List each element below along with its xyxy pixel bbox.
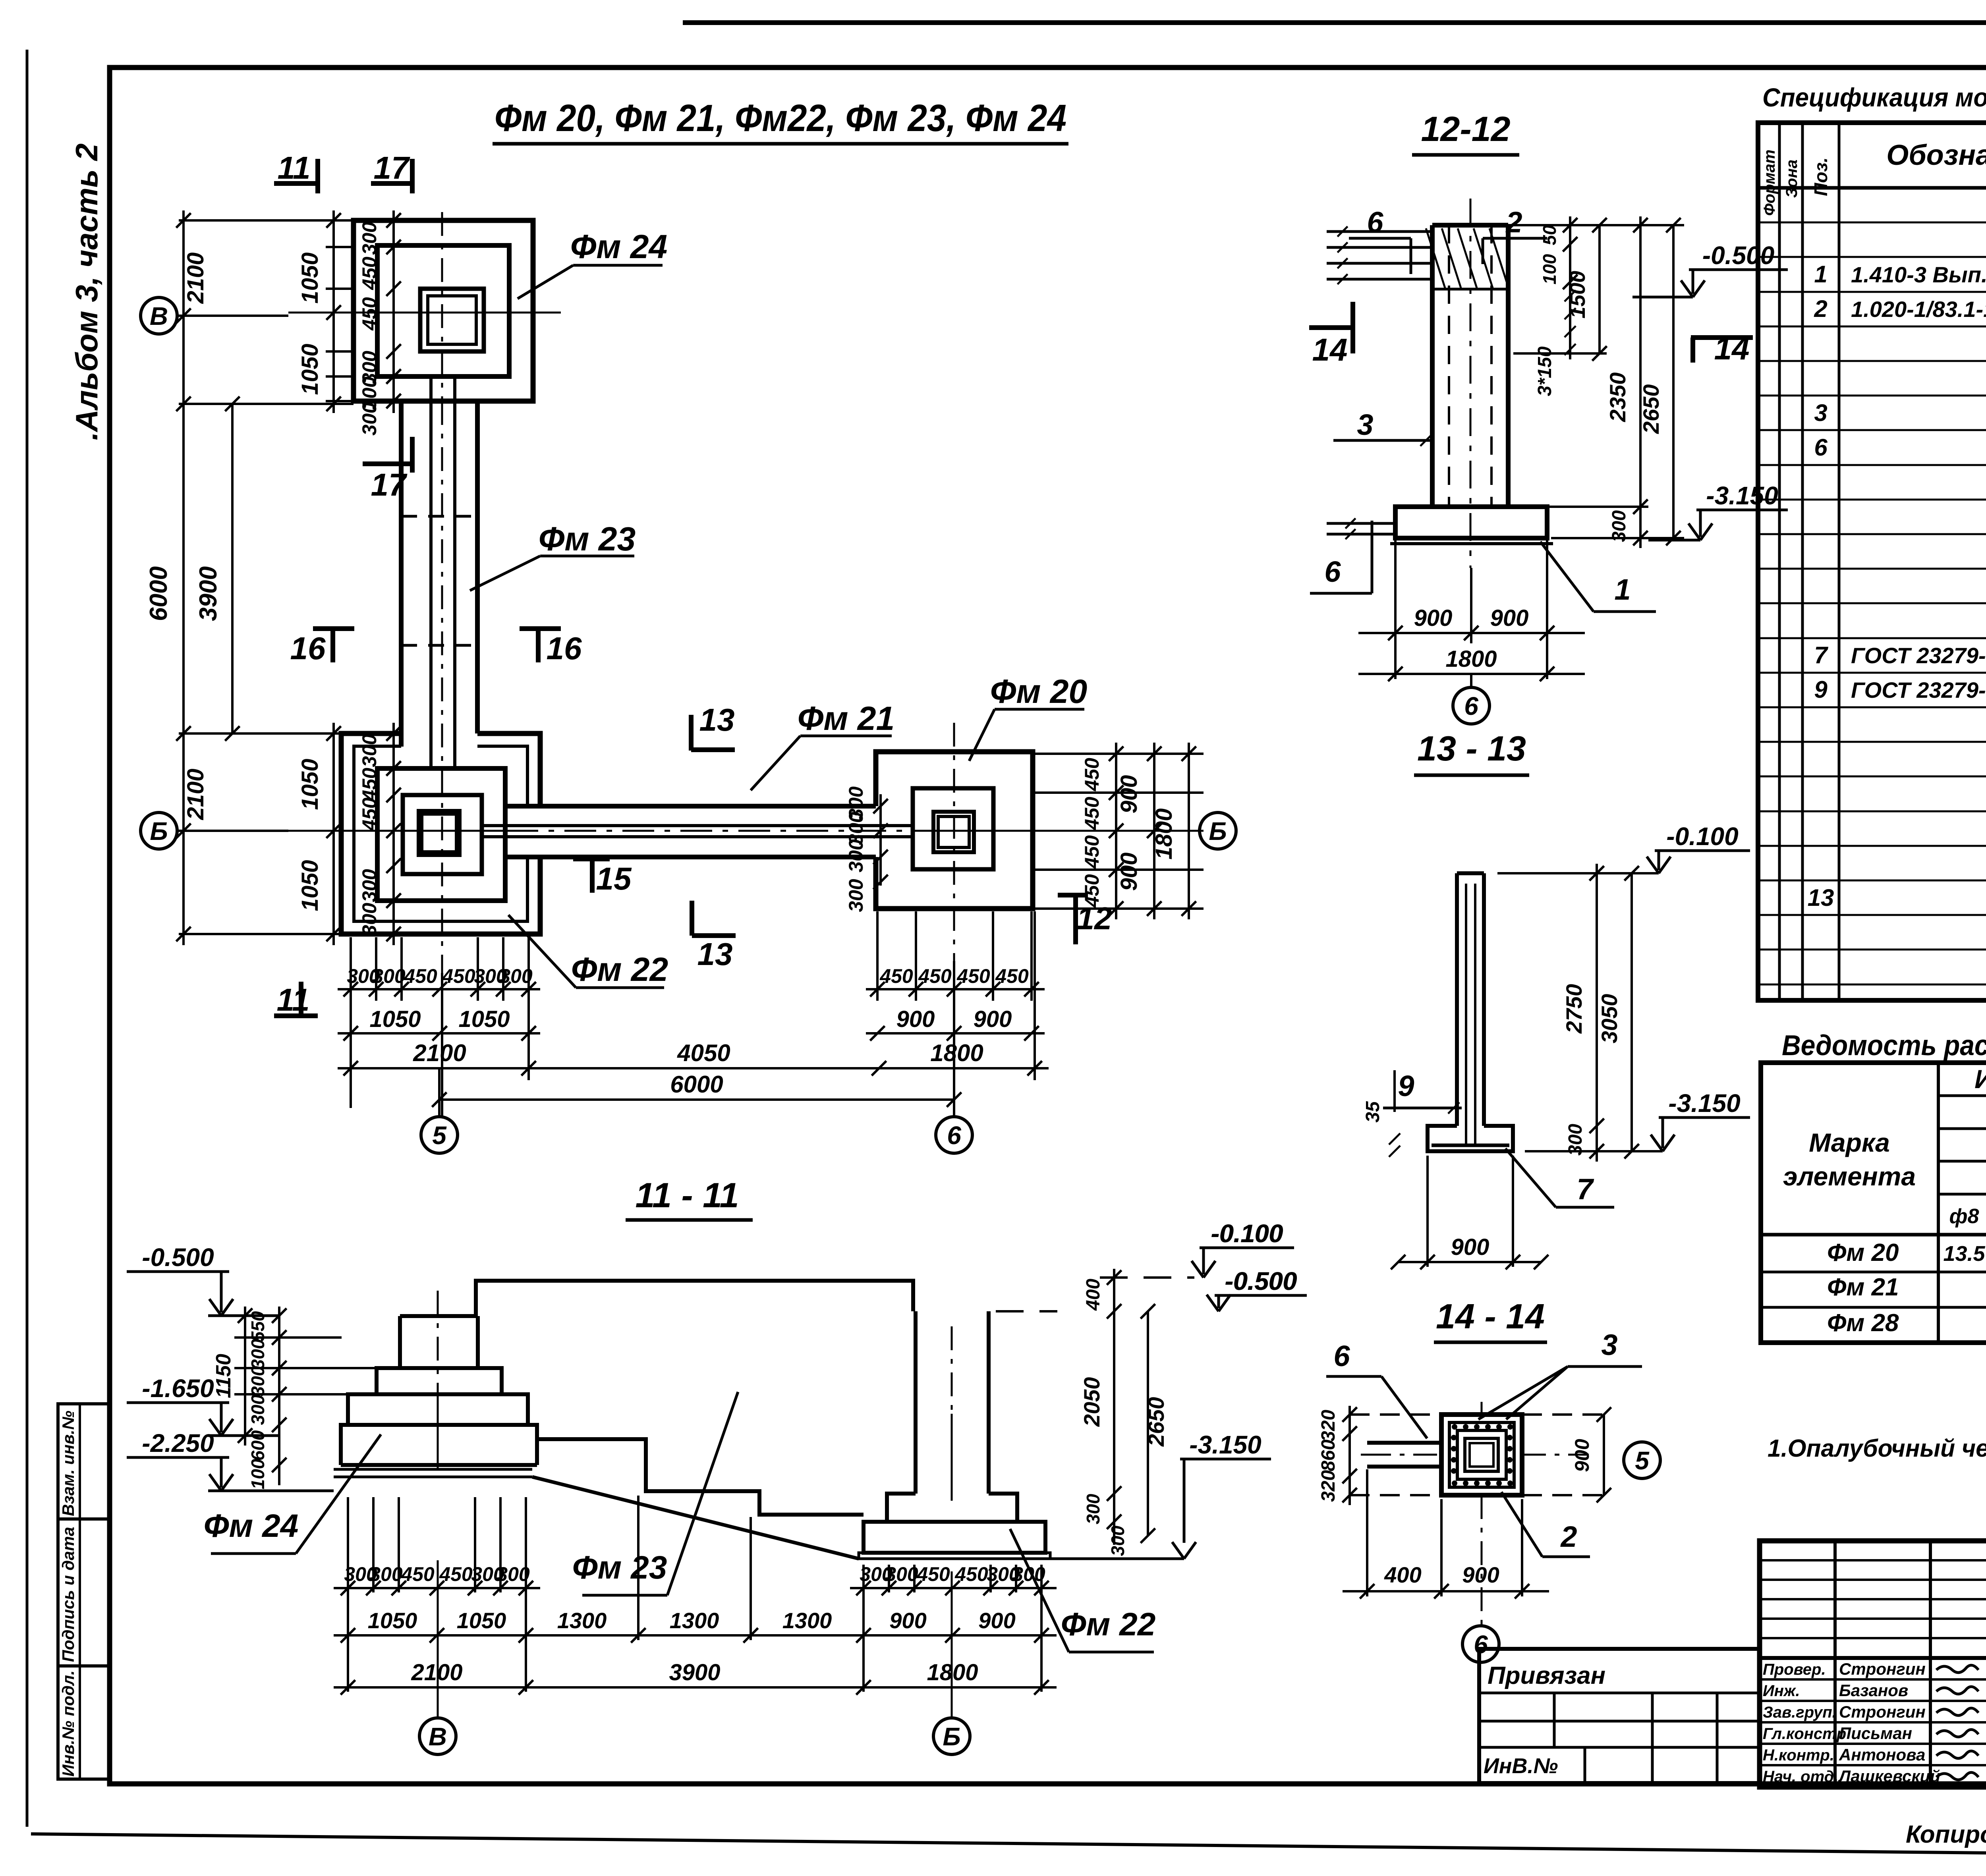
plan bottom chain 450x4 Фм20 xyxy=(866,988,1045,990)
axis circle В section 11-11 xyxy=(419,1718,456,1754)
svg-text:900: 900 xyxy=(896,1006,935,1032)
svg-text:Взам. инв.№: Взам. инв.№ xyxy=(59,1411,77,1516)
axis circle Б section 11-11 xyxy=(933,1718,970,1754)
svg-text:5: 5 xyxy=(1635,1446,1650,1475)
svg-text:Б: Б xyxy=(1209,817,1227,845)
svg-text:Зав.груп.: Зав.груп. xyxy=(1763,1704,1837,1721)
footing Фм20 outer square xyxy=(876,752,1033,909)
svg-text:2100: 2100 xyxy=(183,252,209,304)
plan left chain 1050 1050 (Фм24) xyxy=(332,210,335,413)
section 12-12 column outline xyxy=(1430,225,1435,507)
section 12-12 chain 1500 xyxy=(1598,225,1601,353)
section 14-14 rebar dots xyxy=(1452,1424,1457,1430)
svg-text:1050: 1050 xyxy=(458,1006,510,1032)
small table Привязан xyxy=(1479,1649,1760,1783)
section 12-12 anchor bars (6) xyxy=(1327,230,1432,233)
section 11-11 dim row 1050 1050 1300 1300 1300 900 900 xyxy=(334,1634,1057,1637)
footing Фм22 axis cross xyxy=(288,830,506,832)
svg-text:1300: 1300 xyxy=(782,1608,832,1633)
section 12-12 right extension lines xyxy=(1508,224,1684,226)
svg-text:элемента: элемента xyxy=(1783,1162,1916,1191)
svg-text:ф8: ф8 xyxy=(1949,1205,1979,1228)
svg-text:11: 11 xyxy=(276,982,309,1017)
section 12-12 chain 50 100 xyxy=(1569,216,1571,359)
svg-text:-0.500: -0.500 xyxy=(142,1243,214,1272)
svg-text:15: 15 xyxy=(596,861,632,896)
svg-text:2: 2 xyxy=(1560,1520,1577,1553)
svg-text:4050: 4050 xyxy=(677,1040,730,1066)
svg-text:300: 300 xyxy=(845,839,867,872)
spec table grid xyxy=(1758,123,1986,1000)
svg-text:Инв.№ подл.: Инв.№ подл. xyxy=(59,1670,77,1776)
section 14-14 axis cross xyxy=(1361,1454,1367,1456)
section 11-11 left chains xyxy=(278,1307,280,1485)
title block signature rows xyxy=(1760,1678,1986,1681)
svg-text:13: 13 xyxy=(697,936,733,972)
svg-text:1050: 1050 xyxy=(297,252,323,303)
axis circle В left xyxy=(141,297,177,334)
svg-text:Фм 23: Фм 23 xyxy=(572,1550,667,1586)
svg-text:300: 300 xyxy=(369,1563,403,1585)
beam Фм21 inner lines xyxy=(482,824,913,827)
section 14-14 glass outer square xyxy=(1441,1415,1522,1495)
section mark 13 lower xyxy=(690,901,694,936)
svg-text:Зона: Зона xyxy=(1783,160,1801,198)
svg-text:300: 300 xyxy=(358,222,381,255)
svg-text:3: 3 xyxy=(1814,400,1827,426)
svg-text:3900: 3900 xyxy=(195,566,222,621)
plan left main chain 2100 6000 2100 xyxy=(182,210,185,945)
svg-text:300: 300 xyxy=(358,402,381,436)
svg-text:2: 2 xyxy=(1505,206,1522,239)
svg-text:1800: 1800 xyxy=(1151,808,1177,859)
svg-text:900: 900 xyxy=(974,1006,1012,1032)
svg-text:В: В xyxy=(429,1722,447,1751)
title block outer xyxy=(1760,1541,1986,1787)
svg-text:6: 6 xyxy=(1814,434,1828,461)
plan left small chain 300 450 450 300 300 xyxy=(392,210,395,413)
footing Фм22 glass outer xyxy=(419,811,460,855)
svg-text:450: 450 xyxy=(358,768,381,801)
section 11-11 extension lines left elevations xyxy=(234,1336,342,1339)
svg-text:1150: 1150 xyxy=(212,1354,235,1398)
footing Фм20 axis cross xyxy=(914,830,1204,832)
svg-text:Базанов: Базанов xyxy=(1839,1681,1908,1700)
svg-text:Привязан: Привязан xyxy=(1488,1662,1605,1689)
svg-text:300: 300 xyxy=(358,734,381,767)
svg-text:2350: 2350 xyxy=(1605,372,1630,423)
section 14-14 extension dashed lines xyxy=(1350,1413,1441,1416)
svg-text:300: 300 xyxy=(247,1394,268,1425)
footing Фм20 glass outer xyxy=(933,812,974,852)
svg-text:450: 450 xyxy=(442,965,475,987)
section mark 16 left xyxy=(313,626,354,631)
svg-text:450: 450 xyxy=(358,797,381,831)
svg-text:450: 450 xyxy=(439,1563,473,1585)
svg-text:Фм 22: Фм 22 xyxy=(571,951,668,988)
svg-text:300: 300 xyxy=(372,965,406,987)
svg-text:300: 300 xyxy=(1609,510,1630,542)
svg-text:Стронгин: Стронгин xyxy=(1839,1660,1926,1678)
section 12-12 chain 2650 xyxy=(1672,225,1675,538)
svg-text:Фм 23: Фм 23 xyxy=(539,520,636,558)
svg-text:900: 900 xyxy=(1451,1234,1489,1260)
svg-text:13: 13 xyxy=(699,702,735,737)
svg-text:-3.150: -3.150 xyxy=(1668,1089,1740,1117)
section 11-11 wall top outline xyxy=(476,1281,913,1316)
axis circle 6 section 14-14 xyxy=(1462,1626,1499,1662)
svg-text:2650: 2650 xyxy=(1638,384,1663,434)
svg-text:300: 300 xyxy=(247,1366,268,1396)
svg-text:100: 100 xyxy=(1539,254,1560,284)
svg-text:В: В xyxy=(150,302,168,330)
section 11-11 bedding layer Фм24 xyxy=(334,1468,532,1471)
svg-text:11 - 11: 11 - 11 xyxy=(636,1175,739,1215)
section mark 14 right xyxy=(1691,335,1753,340)
strip Фм23 axis line xyxy=(441,401,443,770)
svg-text:2100: 2100 xyxy=(183,768,209,820)
plan right chain 900 900 xyxy=(1153,743,1155,919)
svg-text:Лашкевский: Лашкевский xyxy=(1838,1767,1940,1785)
svg-text:1500: 1500 xyxy=(1566,271,1590,318)
svg-text:Изделия арматурные: Изделия арматурные xyxy=(1974,1064,1986,1094)
svg-text:600: 600 xyxy=(247,1430,268,1461)
axis circle 6 plan xyxy=(953,1068,955,1117)
svg-text:ГОСТ 23279-85: ГОСТ 23279-85 xyxy=(1851,643,1986,668)
section 14-14 left chain 320 860 320 xyxy=(1348,1406,1351,1505)
svg-text:Фм 24: Фм 24 xyxy=(570,228,668,265)
svg-text:300: 300 xyxy=(885,1563,918,1585)
section 14-14 ring 3 xyxy=(1457,1430,1506,1479)
footing Фм22 glass step square xyxy=(403,795,482,874)
svg-text:17: 17 xyxy=(374,150,410,185)
section 12-12 slab xyxy=(1395,507,1547,538)
svg-text:450: 450 xyxy=(358,297,381,331)
left stamp box Подпись и дата xyxy=(58,1519,109,1666)
section 11-11 dim row 2100 3900 1800 xyxy=(334,1686,1057,1689)
section 11-11 sloped underside line xyxy=(532,1477,859,1559)
svg-text:Н.контр.: Н.контр. xyxy=(1763,1747,1834,1764)
section 12-12 column hatch xyxy=(1426,228,1445,288)
section 11-11 right chains xyxy=(1100,1276,1194,1279)
section 14-14 ring 2 xyxy=(1449,1422,1514,1487)
svg-text:КопироВал: БоброВа: КопироВал: БоброВа xyxy=(1906,1821,1986,1848)
section 13-13 chain 3050 xyxy=(1631,873,1633,1151)
section 12-12 chain 2350 300 xyxy=(1639,216,1642,548)
svg-text:1: 1 xyxy=(1814,261,1827,288)
svg-text:13.5: 13.5 xyxy=(1943,1242,1985,1266)
svg-text:1800: 1800 xyxy=(927,1660,978,1685)
footing Фм22 outer outline with notches xyxy=(341,733,540,934)
svg-text:-2.250: -2.250 xyxy=(142,1429,214,1457)
svg-text:Фм 28: Фм 28 xyxy=(1827,1309,1899,1337)
svg-text:13 - 13: 13 - 13 xyxy=(1417,729,1526,768)
section 12-12 column rebar dashed xyxy=(1448,225,1450,504)
svg-text:450: 450 xyxy=(956,965,990,987)
section 14-14 inner squares xyxy=(1465,1438,1498,1471)
svg-text:6: 6 xyxy=(1333,1339,1350,1372)
plan bottom extension lines Фм20 xyxy=(876,911,879,1001)
footing Фм24 outer square xyxy=(354,220,533,401)
svg-text:ГОСТ 23279-85: ГОСТ 23279-85 xyxy=(1851,677,1986,703)
plan bottom chain 1050 1050 xyxy=(338,1032,540,1035)
svg-text:100: 100 xyxy=(247,1459,268,1489)
beam Фм21 outer lines xyxy=(505,804,876,809)
svg-text:400: 400 xyxy=(1384,1562,1421,1587)
svg-text:Фм 20: Фм 20 xyxy=(990,673,1088,710)
svg-text:300: 300 xyxy=(1012,1563,1045,1585)
footing Фм22 middle square xyxy=(377,768,505,901)
svg-text:ИнВ.№: ИнВ.№ xyxy=(1484,1754,1558,1778)
section 13-13 dim 35 xyxy=(1393,1070,1396,1112)
svg-text:6000: 6000 xyxy=(670,1071,723,1098)
section 14-14 bottom dims 400 900 xyxy=(1366,1469,1368,1596)
svg-text:-0.100: -0.100 xyxy=(1211,1219,1283,1248)
svg-text:300: 300 xyxy=(496,1563,530,1585)
svg-text:-0.500: -0.500 xyxy=(1225,1267,1297,1295)
footing Фм24 axis cross xyxy=(288,312,561,314)
svg-text:Ведомость расхода стали на оди: Ведомость расхода стали на один элемент.… xyxy=(1782,1030,1986,1062)
title block middle divider xyxy=(1760,1656,1986,1660)
section 11-11 steps Фм24 xyxy=(400,1314,478,1318)
section 12-12 chain 3x150 xyxy=(1565,290,1576,301)
svg-text:1.020-1/83.1-10.30-01: 1.020-1/83.1-10.30-01 xyxy=(1851,297,1986,322)
svg-text:300: 300 xyxy=(1083,1494,1103,1524)
section 11-11 dim row 300 300 450 450 300 300 right xyxy=(850,1587,1057,1589)
svg-text:900: 900 xyxy=(1462,1562,1499,1587)
section mark 13 upper xyxy=(689,715,694,751)
svg-text:300: 300 xyxy=(845,879,867,912)
svg-text:6000: 6000 xyxy=(145,566,172,621)
svg-text:Провер.: Провер. xyxy=(1763,1661,1826,1678)
axis circle 5 xyxy=(438,1068,440,1117)
svg-text:Б: Б xyxy=(943,1722,960,1751)
section mark 12 plan xyxy=(1058,893,1088,897)
svg-text:1300: 1300 xyxy=(670,1608,719,1633)
svg-text:2100: 2100 xyxy=(413,1040,466,1066)
svg-text:450: 450 xyxy=(1081,835,1103,869)
svg-text:450: 450 xyxy=(954,1563,988,1585)
section 13-13 wall outline xyxy=(1455,873,1459,1126)
svg-text:2050: 2050 xyxy=(1079,1377,1104,1427)
svg-text:6: 6 xyxy=(947,1121,961,1150)
svg-text:300: 300 xyxy=(1107,1525,1128,1556)
footing Фм24 glass outer xyxy=(420,289,484,351)
svg-text:900: 900 xyxy=(889,1608,926,1633)
svg-text:Нач. отд.: Нач. отд. xyxy=(1763,1768,1838,1785)
svg-text:Б: Б xyxy=(150,817,168,845)
title block signatures squiggles xyxy=(1936,1665,1978,1673)
svg-text:Обозначение: Обозначение xyxy=(1886,139,1986,171)
plan right chain 450x4 xyxy=(1115,743,1117,919)
svg-text:13: 13 xyxy=(1808,884,1834,911)
section 11-11 axis Б dash line xyxy=(951,1326,953,1414)
svg-text:1: 1 xyxy=(1614,573,1631,606)
steel table grid xyxy=(1761,1063,1986,1343)
section 13-13 chain 2750 300 xyxy=(1596,864,1598,1162)
section 13-13 footing xyxy=(1428,1126,1513,1151)
svg-text:Стронгин: Стронгин xyxy=(1839,1702,1926,1721)
svg-text:Спецификация монолитных фундам: Спецификация монолитных фундаментов Фм 2… xyxy=(1762,83,1986,112)
svg-text:300: 300 xyxy=(247,1339,268,1369)
svg-text:400: 400 xyxy=(1083,1279,1104,1311)
svg-text:900: 900 xyxy=(1116,775,1142,814)
svg-text:9: 9 xyxy=(1814,676,1828,703)
svg-text:.Альбом 3, часть 2: .Альбом 3, часть 2 xyxy=(69,143,104,440)
svg-text:14: 14 xyxy=(1714,331,1750,366)
svg-text:Антонова: Антонова xyxy=(1839,1745,1925,1764)
beam Фм21 300 300 300 dims xyxy=(879,794,882,886)
svg-text:Фм 21: Фм 21 xyxy=(798,700,895,737)
svg-text:1050: 1050 xyxy=(369,1006,421,1032)
svg-text:900: 900 xyxy=(1571,1439,1593,1472)
svg-text:450: 450 xyxy=(916,1563,950,1585)
section mark 16 right xyxy=(520,626,561,631)
plan bottom chain 2100 4050 1800 xyxy=(338,1067,1049,1069)
section 11-11 axis В dash line xyxy=(437,1291,439,1386)
svg-text:7: 7 xyxy=(1576,1173,1594,1206)
svg-text:1.Опалубочный чертеж Фм 2: 1.Опалубочный чертеж Фм 28 см. лист 21. xyxy=(1768,1435,1986,1462)
section mark 17 lower xyxy=(363,461,412,466)
svg-text:-1.650: -1.650 xyxy=(142,1374,214,1403)
svg-text:450: 450 xyxy=(1081,758,1103,791)
svg-text:450: 450 xyxy=(401,1563,435,1585)
svg-text:9: 9 xyxy=(1398,1069,1414,1102)
section 14-14 beam stub xyxy=(1367,1441,1441,1445)
section 11-11 right footing xyxy=(864,1522,1045,1553)
sheet top trim edge xyxy=(683,20,1986,25)
section 12-12 column axis xyxy=(1470,199,1472,568)
svg-text:1050: 1050 xyxy=(457,1608,506,1633)
axis circle Б left xyxy=(141,813,177,849)
section 12-12 bottom mesh line xyxy=(1390,542,1553,545)
svg-text:Фм 20: Фм 20 xyxy=(1827,1239,1899,1266)
svg-text:11: 11 xyxy=(277,150,310,185)
svg-text:Фм 20, Фм 21, Фм22, Фм 23, Фм: Фм 20, Фм 21, Фм22, Фм 23, Фм 24 xyxy=(495,97,1066,139)
svg-text:2650: 2650 xyxy=(1144,1397,1169,1447)
plan bottom chain 300 300 450 450 300 300 xyxy=(338,988,540,990)
sheet bottom trim edge xyxy=(31,1834,1986,1859)
section 11-11 right pedestal xyxy=(887,1494,916,1522)
plan left chain 1050 1050 (Фм22) xyxy=(332,723,335,945)
plan bottom chain 900 900 Фм20 xyxy=(866,1032,1045,1035)
svg-text:1800: 1800 xyxy=(1445,646,1497,672)
strip Фм23 wall lines xyxy=(399,401,404,747)
axis circle 5 section 14-14 xyxy=(1624,1442,1660,1478)
section 11-11 footing bottom slab line xyxy=(341,1463,537,1467)
beam Фм21 axis line xyxy=(506,830,914,832)
plan chain 3900 xyxy=(231,404,234,733)
svg-text:5: 5 xyxy=(432,1121,447,1150)
svg-text:14: 14 xyxy=(1312,332,1348,367)
svg-text:450: 450 xyxy=(995,965,1029,987)
svg-text:450: 450 xyxy=(918,965,952,987)
svg-text:300: 300 xyxy=(358,869,381,902)
strip Фм23 hidden step edges xyxy=(401,515,477,518)
section 13-13 footing mesh 7 xyxy=(1432,1144,1509,1147)
section 11-11 right bedding layer xyxy=(859,1553,1050,1559)
svg-text:Формат: Формат xyxy=(1761,150,1778,216)
svg-text:320: 320 xyxy=(1318,1410,1339,1442)
svg-text:1050: 1050 xyxy=(297,344,323,395)
svg-text:17: 17 xyxy=(371,467,408,502)
svg-text:6: 6 xyxy=(1464,692,1478,720)
svg-text:3900: 3900 xyxy=(669,1660,720,1685)
sheet left trim edge xyxy=(26,50,29,1827)
plan bottom chain 6000 xyxy=(439,1098,954,1101)
svg-text:-0.500: -0.500 xyxy=(1702,241,1774,270)
svg-text:Гл.констр: Гл.констр xyxy=(1763,1725,1846,1743)
svg-text:1.410-3 Вып. 1: 1.410-3 Вып. 1 xyxy=(1851,262,1986,287)
svg-text:1050: 1050 xyxy=(368,1608,417,1633)
section mark 15 xyxy=(573,857,610,861)
svg-text:-3.150: -3.150 xyxy=(1189,1430,1261,1459)
svg-text:3: 3 xyxy=(1601,1328,1617,1361)
svg-text:6: 6 xyxy=(1324,555,1341,588)
section 14-14 right dim 900 xyxy=(1603,1415,1605,1495)
svg-text:35: 35 xyxy=(1362,1101,1383,1123)
svg-text:2750: 2750 xyxy=(1561,984,1586,1034)
svg-text:Фм 22: Фм 22 xyxy=(1061,1606,1156,1642)
left stamp box Взам. инв.№ xyxy=(58,1404,109,1519)
section 11-11 chain 2650 right xyxy=(1147,1311,1149,1536)
axis circle Б right xyxy=(1200,813,1236,849)
axis circle 6 section 12-12 xyxy=(1470,674,1472,687)
svg-text:450: 450 xyxy=(358,257,381,290)
section 13-13 bottom dim 900 xyxy=(1426,1156,1429,1267)
svg-text:3050: 3050 xyxy=(1597,994,1622,1044)
svg-text:300: 300 xyxy=(358,903,381,936)
svg-text:50: 50 xyxy=(1539,225,1560,245)
svg-text:1300: 1300 xyxy=(557,1608,607,1633)
svg-text:450: 450 xyxy=(1081,797,1103,830)
title block upper left grid xyxy=(1760,1559,1986,1561)
svg-text:900: 900 xyxy=(1490,605,1529,631)
svg-text:450: 450 xyxy=(879,965,913,987)
footing Фм24 middle square xyxy=(377,245,509,376)
svg-text:900: 900 xyxy=(1414,605,1453,631)
svg-text:860: 860 xyxy=(1318,1440,1339,1471)
footing Фм20 inner square xyxy=(913,788,993,869)
svg-text:300: 300 xyxy=(1565,1124,1586,1156)
section 12-12 left bars at slab xyxy=(1327,522,1395,525)
svg-text:12: 12 xyxy=(1077,901,1112,936)
plan right chain 1800 xyxy=(1188,743,1190,919)
plan left extension lines xyxy=(326,219,354,222)
svg-text:3: 3 xyxy=(1357,408,1373,441)
section mark 14 left xyxy=(1309,325,1353,330)
svg-text:Инж.: Инж. xyxy=(1763,1682,1800,1700)
svg-text:-3.150: -3.150 xyxy=(1706,481,1778,510)
svg-text:Фм 21: Фм 21 xyxy=(1827,1274,1899,1301)
svg-text:900: 900 xyxy=(978,1608,1015,1633)
svg-text:-0.100: -0.100 xyxy=(1666,822,1738,851)
svg-text:14 - 14: 14 - 14 xyxy=(1436,1297,1545,1336)
svg-text:320: 320 xyxy=(1318,1470,1339,1502)
svg-text:Фм 24: Фм 24 xyxy=(204,1508,299,1544)
section 13-13 wall rebar xyxy=(1465,884,1467,1145)
svg-text:1050: 1050 xyxy=(297,860,323,911)
section 11-11 dim row 300 300 450 450 300 300 left xyxy=(334,1587,540,1589)
svg-text:3*150: 3*150 xyxy=(1534,346,1555,396)
svg-text:Письман: Письман xyxy=(1839,1724,1912,1743)
svg-text:2100: 2100 xyxy=(411,1660,462,1685)
svg-text:2: 2 xyxy=(1814,295,1827,322)
section 11-11 step line to right xyxy=(537,1439,864,1515)
plan bottom extension lines Фм22 xyxy=(350,937,352,1001)
svg-text:Поз.: Поз. xyxy=(1810,157,1831,196)
svg-text:Марка: Марка xyxy=(1809,1128,1890,1157)
